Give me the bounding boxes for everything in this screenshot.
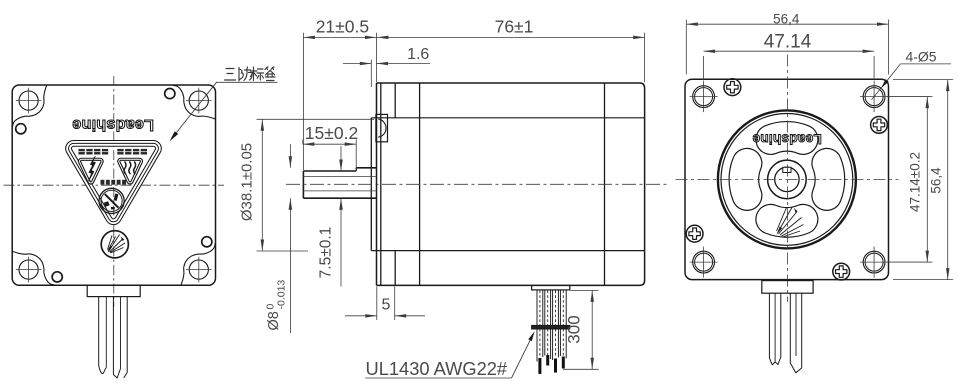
left view: small corner pilot circle — [202, 237, 212, 247]
side view: body chamfer top line — [371, 117, 644, 119]
rear view: Leadshine logo (upside down) — [752, 132, 822, 147]
svg-text:Ø8: Ø8 — [266, 311, 282, 330]
left view: top-right corner ear curve — [173, 85, 216, 119]
left view: bottom-right corner ear curve — [181, 243, 215, 285]
left view: horizontal centerline — [4, 184, 225, 186]
svg-text:47.14±0.2: 47.14±0.2 — [908, 152, 923, 212]
label underline — [216, 81, 278, 83]
svg-text:47.14: 47.14 — [764, 32, 812, 53]
dimension 300 lines — [563, 290, 599, 369]
left view: cable gland block — [87, 285, 140, 296]
rear view: horizontal centerline — [676, 178, 899, 180]
dimension 56,4 (top) lines — [686, 20, 888, 75]
side view: rear end-bell joint line — [604, 83, 606, 285]
svg-text:5: 5 — [382, 297, 391, 314]
left view: small corner pilot circle — [16, 124, 26, 134]
rear view: bottom-right cover screw — [833, 263, 850, 280]
left view: bottom-left corner ear curve — [12, 251, 55, 285]
rear view: top-left mounting hole — [690, 81, 718, 112]
warning label: hot surface wavy lines — [124, 162, 136, 175]
rear view: right-upper cover screw — [871, 117, 888, 134]
rear view: top housing slot — [756, 122, 818, 155]
warning label: triple triangle border — [69, 143, 159, 221]
rear view: hub outer circle — [768, 160, 807, 199]
rear view: top-right mounting hole — [860, 81, 930, 112]
left view: small corner pilot circle — [165, 89, 175, 99]
warning label: no-touch prohibition sign — [99, 188, 124, 213]
dimension Ø38.1±0.05 lines — [257, 119, 375, 251]
wire spec underline and leader — [365, 377, 511, 379]
side view: shaft centerline — [286, 183, 668, 185]
svg-text:-0.013: -0.013 — [276, 280, 288, 310]
left view: top-right mounting hole — [186, 88, 212, 114]
warning label: electric hazard triangle — [79, 159, 102, 183]
side view: pilot boss face — [370, 118, 372, 251]
svg-text:300: 300 — [565, 315, 584, 343]
svg-text:Ø38.1±0.05: Ø38.1±0.05 — [239, 143, 256, 221]
rear view: motor rear outline (rounded square) — [685, 79, 889, 279]
side view: front end-bell step line lower — [394, 251, 396, 286]
left view: vertical centerline — [113, 76, 115, 228]
dimension 7.5±0.1 lines — [339, 146, 343, 287]
left view: top-left mounting hole — [16, 88, 42, 114]
side view: body chamfer bottom line — [371, 250, 644, 252]
side view: front end-bell joint line — [419, 83, 421, 285]
dimension 5 lines — [345, 287, 425, 321]
rear view: vertical centerline — [787, 55, 789, 303]
dimension Ø8 tolerance text — [265, 280, 288, 331]
left view: motor front outline (rounded square) — [12, 85, 215, 285]
side view: front plate back line — [380, 83, 382, 285]
svg-text:76±1: 76±1 — [495, 16, 534, 36]
dimension Ø8 lines — [289, 144, 293, 333]
side view: motor body outline — [377, 83, 645, 285]
dimension 15±0.2 lines — [303, 140, 356, 171]
dimension 4-Ø5 leader — [901, 63, 952, 65]
warning label: middle caption characters — [101, 180, 127, 185]
svg-text:Leadshine: Leadshine — [72, 116, 154, 133]
dimension 47.14 lines — [704, 50, 875, 81]
side view: terminal detail box — [376, 114, 388, 141]
warning label: lightning bolt symbol — [89, 156, 96, 181]
left view: lead wires — [99, 297, 128, 378]
left view: small corner pilot circle — [52, 272, 62, 282]
rear view: bottom-left mounting hole — [690, 247, 718, 278]
rear view: rear housing inner rim circle — [721, 113, 853, 245]
rear view: hub index notch — [783, 167, 791, 172]
svg-text:4-Ø5: 4-Ø5 — [905, 49, 936, 65]
rear view: bottom-right mounting hole — [860, 247, 930, 278]
rear view: date stamp scribble — [777, 207, 804, 238]
rear view: right housing slot — [812, 148, 845, 210]
rear view: left-lower cover screw — [686, 225, 703, 242]
warning label: top caption characters — [79, 149, 148, 155]
leader arrow to warning label — [173, 82, 217, 137]
svg-text:15±0.2: 15±0.2 — [305, 123, 358, 143]
callout text: san fang biao qian (weatherproof label) — [225, 67, 276, 81]
left view: vertical centerline lower — [113, 228, 115, 307]
rear view: rear housing outer circle — [718, 110, 856, 248]
dimension 47.14±0.2 lines — [887, 97, 933, 263]
side view: front plate face line — [376, 83, 378, 285]
rear view: hub bore circle — [775, 167, 799, 191]
left view: Leadshine logo (upside down) — [72, 116, 154, 133]
dimension 76±1 lines — [377, 33, 645, 82]
svg-text:7.5±0.1: 7.5±0.1 — [318, 227, 335, 279]
side view: front end-bell step line upper — [394, 83, 396, 118]
side view: lead wire bundle — [537, 290, 566, 362]
rear view: lead wires — [769, 293, 801, 373]
svg-text:1.6: 1.6 — [407, 46, 429, 63]
side view: cable gland block — [532, 285, 570, 290]
left view: bottom-right mounting hole — [186, 257, 212, 283]
svg-text:56,4: 56,4 — [929, 167, 944, 194]
dimension 1.6 lines — [343, 60, 430, 87]
side view: cable tie band — [532, 325, 570, 329]
svg-text:21±0.5: 21±0.5 — [316, 16, 369, 36]
dimension 21±0.5 lines — [303, 33, 376, 170]
svg-text:UL1430 AWG22#: UL1430 AWG22# — [366, 358, 508, 379]
left view: bottom-left mounting hole — [16, 257, 42, 283]
warning label: hot surface triangle — [119, 159, 142, 183]
side view: shaft with milled flat — [303, 168, 376, 198]
left view: date stamp circle with scribble — [101, 231, 128, 258]
svg-text:Leadshine: Leadshine — [752, 132, 822, 147]
dimension 56,4 (right) lines — [893, 80, 953, 280]
left view: top-left corner ear curve — [13, 85, 47, 127]
rear view: left housing slot — [729, 148, 762, 210]
rear view: bottom housing slot — [756, 204, 818, 237]
side view: bare wire tips — [540, 355, 563, 374]
rear view: cable gland block — [762, 281, 813, 294]
rear view: top-left cover screw — [724, 79, 741, 96]
